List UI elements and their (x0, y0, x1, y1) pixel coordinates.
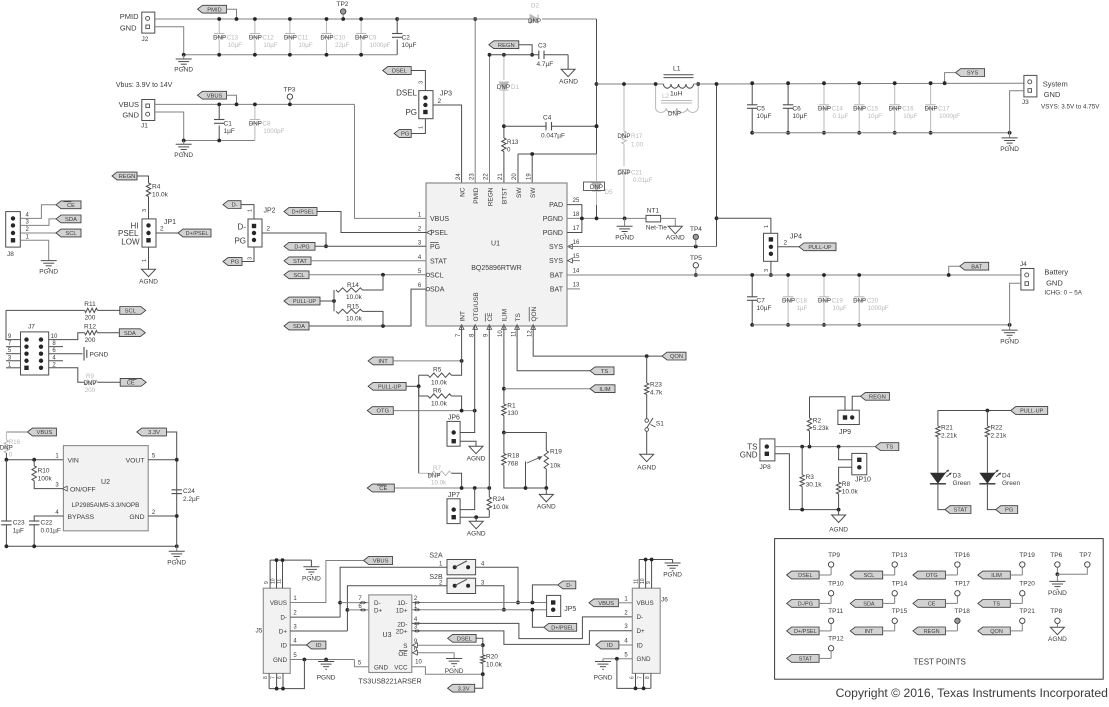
svg-text:10.0k: 10.0k (346, 294, 363, 301)
capacitor C9 (DNP) (360, 19, 362, 34)
svg-text:0.1µF: 0.1µF (833, 113, 849, 120)
svg-text:VBUS: VBUS (119, 100, 139, 109)
svg-text:Green: Green (953, 480, 971, 487)
svg-text:8: 8 (263, 676, 269, 679)
net flag STAT (U1) (284, 257, 311, 265)
net flag CE (U1) (367, 484, 394, 492)
svg-text:13: 13 (573, 282, 580, 288)
ground AGND (TS) (838, 510, 840, 515)
resistor R8 (836, 482, 840, 494)
IC U2 LP2985 (63, 446, 148, 531)
wire 1D- row (412, 602, 547, 604)
net flag SCL (U1) (284, 271, 309, 279)
svg-text:D+: D+ (279, 628, 288, 635)
svg-text:DNP: DNP (249, 121, 262, 128)
svg-text:DNP: DNP (355, 35, 368, 42)
LED D3 (930, 473, 946, 484)
svg-text:PGND: PGND (90, 351, 109, 358)
svg-text:OE: OE (398, 651, 407, 658)
svg-text:10.0k: 10.0k (346, 316, 363, 323)
capacitor C16 (DNP) (894, 83, 896, 105)
connector J2 (142, 12, 155, 33)
svg-text:R18: R18 (507, 453, 519, 460)
capacitor C2 (396, 19, 398, 34)
svg-text:C11: C11 (297, 35, 308, 42)
svg-text:JP6: JP6 (448, 415, 460, 422)
svg-text:C2: C2 (402, 35, 411, 42)
wire J8 pin1 to PGND (20, 240, 48, 260)
resistor R3 (801, 447, 803, 475)
svg-text:VBUS: VBUS (207, 93, 223, 99)
wire J5 shield top (269, 560, 271, 588)
svg-text:1: 1 (764, 225, 770, 228)
svg-text:OTG/USB: OTG/USB (473, 292, 480, 321)
svg-text:DSEL: DSEL (798, 573, 812, 579)
test point group box (775, 539, 1104, 680)
svg-text:4.7µF: 4.7µF (537, 61, 554, 68)
svg-text:22: 22 (484, 173, 490, 180)
svg-text:PGND: PGND (39, 269, 58, 276)
svg-text:VBUS: VBUS (430, 216, 449, 223)
wire TS row (JP8) (775, 446, 875, 448)
svg-text:U2: U2 (101, 479, 110, 486)
svg-text:DSEL: DSEL (392, 69, 408, 75)
svg-text:20: 20 (512, 173, 518, 180)
net flag BAT (960, 262, 989, 270)
capacitor C15 (DNP) (858, 83, 860, 105)
svg-text:Battery: Battery (1044, 268, 1068, 277)
svg-text:PG: PG (430, 244, 440, 251)
pin marks U1 (427, 230, 432, 235)
capacitor C8 (DNP) (254, 104, 256, 119)
svg-text:C6: C6 (792, 106, 801, 113)
svg-text:2: 2 (784, 240, 788, 247)
svg-text:TP17: TP17 (954, 581, 970, 588)
svg-text:C19: C19 (832, 298, 844, 305)
svg-text:C23: C23 (13, 520, 25, 527)
capacitor C18 (DNP) (787, 275, 789, 297)
net flag DSEL (TP9) (787, 571, 820, 579)
ground PGND (J7) sideways (83, 347, 85, 361)
wire J5 shield bottom (268, 673, 270, 688)
svg-text:REGN: REGN (498, 43, 515, 49)
svg-text:INT: INT (459, 311, 466, 322)
svg-text:AGND: AGND (537, 504, 556, 511)
jumper JP7 (447, 499, 460, 524)
net flag REGN (TP18) (913, 627, 946, 635)
jumper JP8 (760, 439, 775, 461)
wire VCC row (412, 667, 483, 674)
svg-text:BAT: BAT (550, 287, 564, 294)
svg-text:10.0k: 10.0k (431, 479, 447, 486)
svg-text:1: 1 (142, 259, 148, 262)
ground PGND J2 (183, 55, 185, 59)
svg-text:3: 3 (764, 269, 770, 272)
wire R2 top to JP9 (810, 397, 846, 411)
svg-text:PGND: PGND (302, 576, 321, 583)
svg-text:D+: D+ (374, 608, 383, 615)
svg-text:D+/PSEL: D+/PSEL (551, 625, 574, 631)
wire OE row to PGND (412, 653, 454, 659)
svg-text:QON: QON (990, 629, 1003, 635)
wire J7 left stubs (6, 346, 21, 348)
svg-text:C14: C14 (832, 106, 844, 113)
net flag TS (TP20) (978, 600, 1011, 608)
wire U2 bottom rail (6, 545, 176, 547)
svg-text:100k: 100k (38, 476, 53, 483)
svg-text:10.0k: 10.0k (152, 192, 169, 199)
wire JP6 to AGND (460, 441, 476, 446)
resistor R12 (49, 333, 85, 340)
svg-text:PGND: PGND (174, 67, 193, 74)
svg-text:C1: C1 (224, 121, 233, 128)
svg-text:0.01µF: 0.01µF (633, 177, 653, 184)
wire VIN rail (6, 459, 63, 461)
svg-text:D+: D+ (637, 628, 646, 635)
net flag CE (J7) (120, 378, 146, 386)
wire SYS drop to U1 pin16 (716, 84, 718, 247)
svg-text:TS: TS (515, 313, 522, 322)
wire D+/PSEL to 1D+ (532, 610, 543, 628)
svg-text:VSYS: 3.5V to 4.75V: VSYS: 3.5V to 4.75V (1041, 104, 1100, 111)
svg-text:Green: Green (1002, 480, 1020, 487)
net flag PMID (198, 5, 227, 13)
svg-text:J5: J5 (256, 628, 263, 635)
svg-text:D-: D- (238, 223, 247, 232)
net flag PG (D4) (996, 506, 1018, 514)
ground PGND (J5 gnd) (325, 660, 327, 662)
svg-text:R1: R1 (507, 403, 516, 410)
svg-text:AGND: AGND (139, 279, 158, 286)
svg-text:2: 2 (160, 226, 164, 233)
wire PULL-UP row (406, 385, 419, 387)
net flag OTG (367, 407, 393, 415)
svg-text:VBUS: VBUS (37, 430, 53, 436)
svg-text:PGND: PGND (1048, 590, 1067, 597)
wire U1 pin11 / TS (517, 326, 590, 371)
svg-text:System: System (1043, 80, 1068, 89)
svg-text:DNP: DNP (320, 35, 333, 42)
net flag INT (368, 357, 393, 365)
svg-text:C5: C5 (757, 106, 766, 113)
wire DSEL to S pin (476, 638, 483, 645)
svg-text:VBUS: VBUS (637, 600, 654, 607)
svg-text:CE: CE (487, 312, 494, 322)
svg-text:BTST: BTST (502, 187, 509, 204)
net flag TS (U1) (590, 367, 614, 375)
svg-text:LP2985AIM5-3.3/NOPB: LP2985AIM5-3.3/NOPB (72, 502, 140, 509)
svg-text:TP21: TP21 (1019, 608, 1035, 615)
svg-text:JP10: JP10 (855, 477, 871, 484)
svg-text:R20: R20 (486, 654, 498, 661)
net flag D+/PSEL (U1) (284, 208, 317, 216)
wire U1 pin22 REGN (489, 55, 491, 183)
svg-text:SYS: SYS (549, 244, 563, 251)
net flag STAT (TP12) (787, 655, 820, 663)
wire STAT to U1 (311, 260, 426, 262)
svg-text:TP5: TP5 (690, 255, 702, 262)
svg-text:SCL: SCL (125, 309, 137, 315)
connector J4 (1021, 269, 1034, 291)
capacitor C21 (DNP) (619, 169, 629, 171)
svg-text:AGND: AGND (559, 79, 578, 86)
svg-text:JP2: JP2 (264, 208, 276, 215)
svg-text:VBUS: VBUS (270, 600, 287, 607)
wire REGN to R4 (137, 176, 149, 183)
svg-text:130: 130 (507, 410, 518, 417)
svg-text:DNP: DNP (249, 35, 262, 42)
svg-text:INT: INT (865, 629, 875, 635)
svg-text:INT: INT (378, 359, 388, 365)
svg-text:J7: J7 (28, 324, 35, 331)
svg-text:2D+: 2D+ (396, 629, 408, 636)
svg-text:30.1k: 30.1k (806, 482, 823, 489)
svg-text:C12: C12 (262, 35, 274, 42)
svg-text:SCL: SCL (65, 231, 77, 237)
svg-text:PGND: PGND (543, 230, 563, 237)
wire J7 pin4 stub (49, 360, 63, 362)
capacitor C12 (DNP) (254, 19, 256, 34)
net flag PULL-UP (R14 R15) (284, 297, 320, 305)
ground AGND (TP8) (1050, 627, 1064, 635)
wire JP9 to REGN (852, 396, 860, 410)
svg-text:200: 200 (85, 337, 96, 344)
svg-text:C13: C13 (227, 35, 239, 42)
svg-text:C10: C10 (334, 35, 346, 42)
svg-text:Net-Tie: Net-Tie (646, 225, 667, 232)
wire S2A pin1 (340, 567, 447, 617)
svg-text:C21: C21 (631, 170, 643, 177)
resistor R17 (DNP) (623, 84, 625, 131)
svg-text:TP11: TP11 (828, 608, 843, 615)
svg-text:R17: R17 (631, 133, 643, 140)
wire U1 pin8 to JP6 (460, 326, 475, 433)
svg-text:VIN: VIN (68, 458, 79, 465)
svg-text:C17: C17 (938, 106, 950, 113)
svg-text:8: 8 (645, 676, 651, 679)
wire SW to SYS vertical (596, 19, 598, 154)
svg-text:D2: D2 (531, 3, 539, 10)
resistor R13 (502, 138, 506, 152)
ground PGND (TP6) (1056, 574, 1058, 581)
ground PGND (U3) (446, 658, 462, 660)
wire 2D- route (412, 617, 633, 639)
wire ID J6 (619, 644, 632, 646)
ground PGND SYS (1009, 133, 1011, 138)
wire JP10 link (839, 447, 852, 460)
svg-text:10µF: 10µF (228, 42, 242, 49)
capacitor C7 (751, 275, 753, 297)
svg-text:SDA: SDA (863, 602, 875, 608)
wire VBUS J6 (618, 602, 632, 604)
svg-text:C9: C9 (369, 35, 377, 42)
net flag INT (TP15) (850, 627, 883, 635)
wire J7 pin9 up (6, 310, 21, 339)
wire JP7 bottom row (460, 516, 489, 518)
ground PGND BAT (1009, 325, 1011, 330)
svg-text:TP10: TP10 (828, 581, 844, 588)
svg-text:R9: R9 (86, 373, 94, 380)
wire J5 D- row (290, 616, 340, 618)
svg-text:24: 24 (456, 173, 462, 180)
net flag 3.3V (U2) (137, 428, 167, 436)
svg-text:PG: PG (405, 108, 417, 117)
svg-text:REGN: REGN (924, 629, 940, 635)
wire D- flag to JP2 (241, 205, 254, 219)
wire PMID flag stub (226, 9, 236, 19)
svg-text:VBUS: VBUS (598, 601, 614, 607)
resistor R23 (646, 356, 648, 383)
capacitor C23 (5, 460, 7, 521)
svg-text:AGND: AGND (467, 531, 486, 538)
ground AGND JP7 (475, 517, 477, 521)
wire S2B pin3 (476, 586, 504, 610)
svg-text:2: 2 (438, 98, 442, 105)
ground PGND U2 (176, 546, 178, 551)
svg-text:TP16: TP16 (954, 552, 970, 559)
resistor R20 (482, 645, 484, 655)
svg-text:ILIM: ILIM (991, 573, 1002, 579)
jumper JP9 (838, 410, 859, 424)
wire JP2 pin3 to PG flag (242, 247, 254, 262)
svg-text:ILIM: ILIM (599, 387, 610, 393)
net flag TS (JP8) (875, 443, 899, 451)
svg-text:3: 3 (142, 209, 148, 212)
svg-text:D-: D- (374, 600, 381, 607)
svg-text:PGND: PGND (317, 675, 336, 682)
connector J6 (632, 588, 660, 673)
ground AGND C3 (561, 69, 575, 77)
net flag PG (394, 130, 411, 138)
wire J5 GND row (290, 659, 354, 661)
svg-text:D-/PG: D-/PG (294, 244, 309, 250)
svg-text:R11: R11 (84, 301, 96, 308)
svg-text:PGND: PGND (1000, 339, 1019, 346)
svg-text:3.3V: 3.3V (148, 430, 160, 436)
svg-text:SYS: SYS (549, 258, 563, 265)
svg-text:TP13: TP13 (892, 552, 908, 559)
svg-text:10: 10 (415, 660, 422, 666)
svg-text:L2: L2 (662, 93, 669, 100)
svg-text:CE: CE (67, 203, 75, 209)
svg-text:21: 21 (498, 173, 504, 180)
svg-text:GND: GND (374, 665, 388, 672)
connector J3 (1024, 75, 1037, 97)
svg-text:4.7k: 4.7k (650, 390, 663, 397)
wire J6 shield bottom (635, 673, 637, 688)
svg-text:1000pF: 1000pF (263, 128, 284, 135)
svg-text:PGND: PGND (594, 675, 613, 682)
svg-text:R7: R7 (433, 465, 441, 472)
svg-text:ID: ID (316, 643, 322, 649)
wire D+/PSEL to U1 PSEL (317, 212, 426, 233)
net flag CE (TP17) (913, 600, 946, 608)
jumper JP1 (142, 219, 156, 247)
connector J8 (6, 212, 21, 248)
svg-text:TS3USB221ARSER: TS3USB221ARSER (358, 679, 421, 686)
svg-text:10µF: 10µF (792, 113, 807, 120)
svg-text:JP1: JP1 (164, 219, 176, 226)
wire PGND row (567, 217, 646, 219)
svg-text:10: 10 (51, 334, 58, 340)
svg-text:19: 19 (526, 173, 532, 180)
wire PMID rail (155, 18, 397, 20)
net flag SDA (J8) (56, 215, 81, 223)
svg-text:DNP: DNP (617, 170, 630, 177)
svg-text:10: 10 (498, 330, 504, 337)
wire D- flag to 1D- (532, 585, 557, 603)
svg-text:VBUS: VBUS (373, 559, 389, 565)
wire D4 to PG (987, 484, 995, 510)
svg-text:J4: J4 (1020, 261, 1027, 268)
svg-text:9: 9 (264, 581, 270, 584)
svg-text:DNP: DNP (528, 18, 541, 25)
svg-text:ICHG: 0 ~ 5A: ICHG: 0 ~ 5A (1044, 290, 1082, 297)
net flag ILIM (504, 388, 590, 390)
net flag REGN (JP1) (112, 172, 137, 180)
net flag PULL-UP (JP4) (799, 243, 836, 251)
svg-text:U3: U3 (383, 632, 392, 639)
svg-text:TP12: TP12 (828, 636, 844, 643)
resistor R24 (488, 488, 490, 497)
svg-text:CE: CE (379, 486, 387, 492)
wire U1 pin10 / ILIM (503, 326, 505, 404)
net flag VBUS (J5) (364, 557, 393, 565)
net flag DSEL (U3) (448, 634, 477, 642)
svg-text:3.3V: 3.3V (458, 686, 470, 692)
svg-text:REGN: REGN (869, 394, 886, 400)
svg-text:AGND: AGND (1048, 636, 1067, 643)
wire J1 gnd (155, 112, 184, 141)
svg-text:200: 200 (85, 387, 96, 394)
svg-text:GND: GND (1046, 279, 1063, 288)
wire INT row (393, 360, 462, 362)
net flag D- (JP5) (558, 581, 576, 589)
svg-text:PULL-UP: PULL-UP (378, 384, 402, 390)
svg-text:BAT: BAT (971, 264, 982, 270)
wire S2A pin4 (476, 567, 518, 602)
net flag QON (662, 352, 686, 360)
svg-text:TP4: TP4 (690, 226, 702, 233)
svg-text:16: 16 (573, 240, 580, 246)
svg-text:R2: R2 (813, 418, 822, 425)
inductor L2 (DNP) (655, 84, 657, 108)
svg-text:AGND: AGND (666, 235, 685, 242)
svg-text:D+/PSEL: D+/PSEL (186, 231, 209, 237)
ground AGND S1 (640, 454, 654, 462)
svg-text:PGND: PGND (663, 572, 682, 579)
capacitor C24 (172, 489, 182, 491)
svg-text:10µF: 10µF (298, 42, 312, 49)
connector J5 (263, 588, 290, 673)
svg-text:TS: TS (601, 369, 609, 375)
svg-text:R24: R24 (493, 496, 505, 503)
svg-text:CE: CE (928, 602, 936, 608)
svg-text:ID: ID (637, 642, 644, 649)
svg-text:J6: J6 (661, 597, 668, 604)
svg-text:1.00: 1.00 (631, 142, 644, 149)
svg-text:22µF: 22µF (335, 42, 349, 49)
svg-text:PMID: PMID (207, 7, 222, 13)
svg-text:JP5: JP5 (564, 606, 576, 613)
wire PMID bottom rail (184, 54, 398, 56)
svg-text:PGND: PGND (615, 235, 634, 242)
LED D4 (979, 473, 995, 484)
svg-text:NT1: NT1 (647, 208, 660, 215)
wire GND stub (148, 515, 177, 517)
svg-text:PG: PG (231, 260, 240, 266)
svg-text:ID: ID (281, 642, 288, 649)
